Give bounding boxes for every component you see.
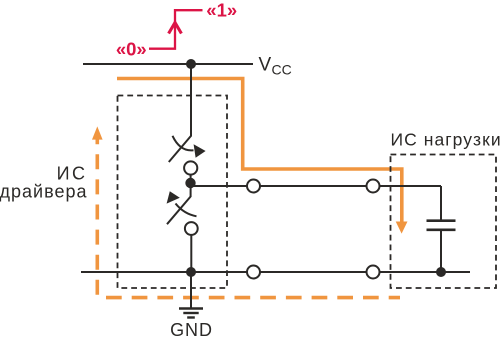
svg-text:CC: CC <box>272 62 292 78</box>
svg-text:ИС нагрузки: ИС нагрузки <box>391 129 500 149</box>
svg-text:драйвера: драйвера <box>0 182 88 202</box>
svg-text:«1»: «1» <box>206 0 237 20</box>
svg-text:GND: GND <box>170 320 213 338</box>
svg-text:«0»: «0» <box>116 38 147 59</box>
svg-text:V: V <box>259 55 272 76</box>
